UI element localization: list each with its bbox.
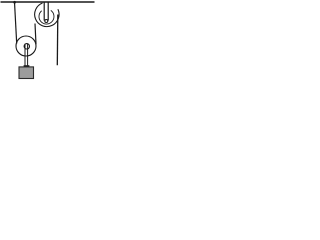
movable pulley axle ring bbox=[24, 44, 29, 49]
weight block W bbox=[19, 67, 34, 79]
fixed pulley axle dot bbox=[45, 20, 48, 23]
wire right free rope bbox=[56, 15, 59, 66]
ceiling anchor dot bbox=[13, 1, 16, 4]
wire left rope bbox=[15, 2, 17, 44]
movable pulley shaft bbox=[24, 44, 26, 66]
pulley movable wheel bbox=[16, 36, 36, 56]
wire rope between pulleys bbox=[35, 24, 36, 45]
fixed pulley bracket bbox=[43, 2, 45, 21]
shaft flange bbox=[24, 65, 30, 67]
pulley fixed inner rim bbox=[39, 10, 54, 24]
ceiling bbox=[1, 1, 95, 3]
pulley fixed outer wheel bbox=[35, 3, 59, 27]
